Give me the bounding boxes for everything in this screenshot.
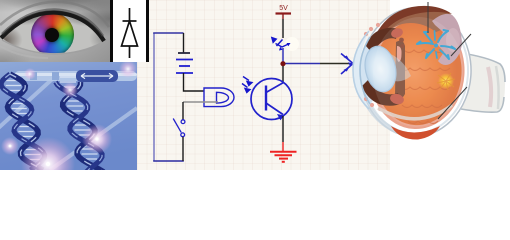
iris rainbow bbox=[31, 13, 74, 56]
wire: switch bottom lead bbox=[182, 137, 184, 161]
annotation line 1 bbox=[427, 2, 429, 33]
switch S1 bbox=[173, 119, 185, 137]
circuit schematic overlay bbox=[0, 0, 510, 170]
wire: loop bottom horizontal bbox=[153, 160, 184, 162]
DNA image (bottom-left) bbox=[0, 62, 137, 170]
glows bbox=[21, 137, 75, 191]
anatomical eye diagram (right) bbox=[340, 0, 510, 170]
helix right bbox=[56, 77, 104, 172]
LED D2 bbox=[271, 37, 291, 51]
mauve band around star bbox=[432, 14, 462, 65]
retina interior orange bbox=[371, 16, 465, 128]
sclera shading bbox=[0, 0, 110, 62]
iris dark bottom band bbox=[362, 80, 402, 106]
blue star cell bbox=[417, 30, 455, 59]
node (junction) bbox=[280, 61, 285, 66]
phototransistor Q1 bbox=[251, 79, 292, 120]
connecting band right of lens bbox=[395, 41, 405, 99]
pink drip bbox=[397, 46, 402, 62]
ciliary muscle red top bbox=[390, 27, 404, 40]
annotation line 3 bbox=[438, 87, 467, 119]
skin shading bbox=[0, 0, 110, 62]
wire: 5V to LED bbox=[282, 19, 284, 38]
lashes / lid line bbox=[0, 0, 110, 62]
ground bbox=[270, 152, 297, 162]
eye opening (almond) bbox=[0, 0, 110, 62]
light wash over interior bbox=[369, 14, 466, 130]
wire: LED to node bbox=[282, 48, 284, 64]
sclera blue-gray tint lower-left bbox=[364, 102, 400, 132]
lens bbox=[361, 43, 400, 94]
horizontal strand tube bbox=[14, 70, 137, 82]
light arrows into Q1 bbox=[242, 77, 252, 93]
dark top crescent bbox=[375, 6, 452, 37]
eyeball sclera bbox=[357, 4, 476, 140]
optic nerve bbox=[461, 53, 505, 112]
wire: red stub under 5V bar bbox=[282, 14, 284, 19]
helix left bbox=[1, 74, 45, 170]
optic disc bbox=[438, 73, 454, 89]
choroid pink rim bbox=[366, 12, 469, 132]
svg-text:5V: 5V bbox=[279, 5, 288, 12]
wire: switch top lead bbox=[182, 102, 184, 120]
pale band above bottom rim bbox=[378, 105, 452, 119]
DNA background bbox=[0, 62, 137, 170]
wire: battery top lead bbox=[183, 33, 185, 53]
wire: node to collector bbox=[282, 66, 284, 83]
glow of LED bbox=[285, 37, 299, 51]
aqueous / cornea area bbox=[353, 32, 369, 108]
diode box (top) bbox=[110, 0, 149, 62]
wire: gray lead into lamp bbox=[183, 101, 218, 103]
circuit background cream with faint grid bbox=[137, 0, 390, 170]
choroid mid-brown band top bbox=[377, 7, 453, 39]
cornea outline bbox=[353, 31, 369, 109]
wire: red stem into ground bbox=[282, 142, 284, 151]
wire: output line (dark segment) bbox=[320, 63, 349, 65]
pupil bbox=[45, 28, 59, 42]
front pale blue chamber bbox=[360, 36, 379, 105]
output arrowhead bbox=[341, 54, 353, 75]
LED lamp D1 (D-shape) bbox=[204, 88, 234, 107]
wire: output line (blue segment) bbox=[286, 63, 321, 65]
battery B1 bbox=[176, 53, 193, 73]
eye photo (top-left) bbox=[0, 0, 110, 62]
annotation line 2 bbox=[451, 34, 471, 56]
sparkles bbox=[9, 137, 99, 166]
wire: emitter to ground bbox=[282, 116, 284, 142]
5V rail bar bbox=[276, 12, 292, 14]
light streaks bbox=[0, 72, 137, 170]
diode symbol bbox=[110, 0, 149, 62]
vitreous light wedge bbox=[381, 52, 411, 81]
scallop texture bbox=[400, 50, 450, 124]
wire: loop top horizontal bbox=[153, 32, 183, 34]
pink ciliary dots bbox=[364, 23, 382, 111]
ciliary muscle red bottom bbox=[389, 92, 405, 105]
iris brown top band bbox=[366, 28, 398, 53]
bottom red lip bbox=[391, 126, 440, 140]
wire: loop left vertical bbox=[153, 33, 155, 161]
wire: battery bottom lead bbox=[184, 73, 205, 91]
pale wash upper-right bbox=[446, 28, 460, 52]
scallop bumps on top band edge bbox=[397, 32, 405, 49]
